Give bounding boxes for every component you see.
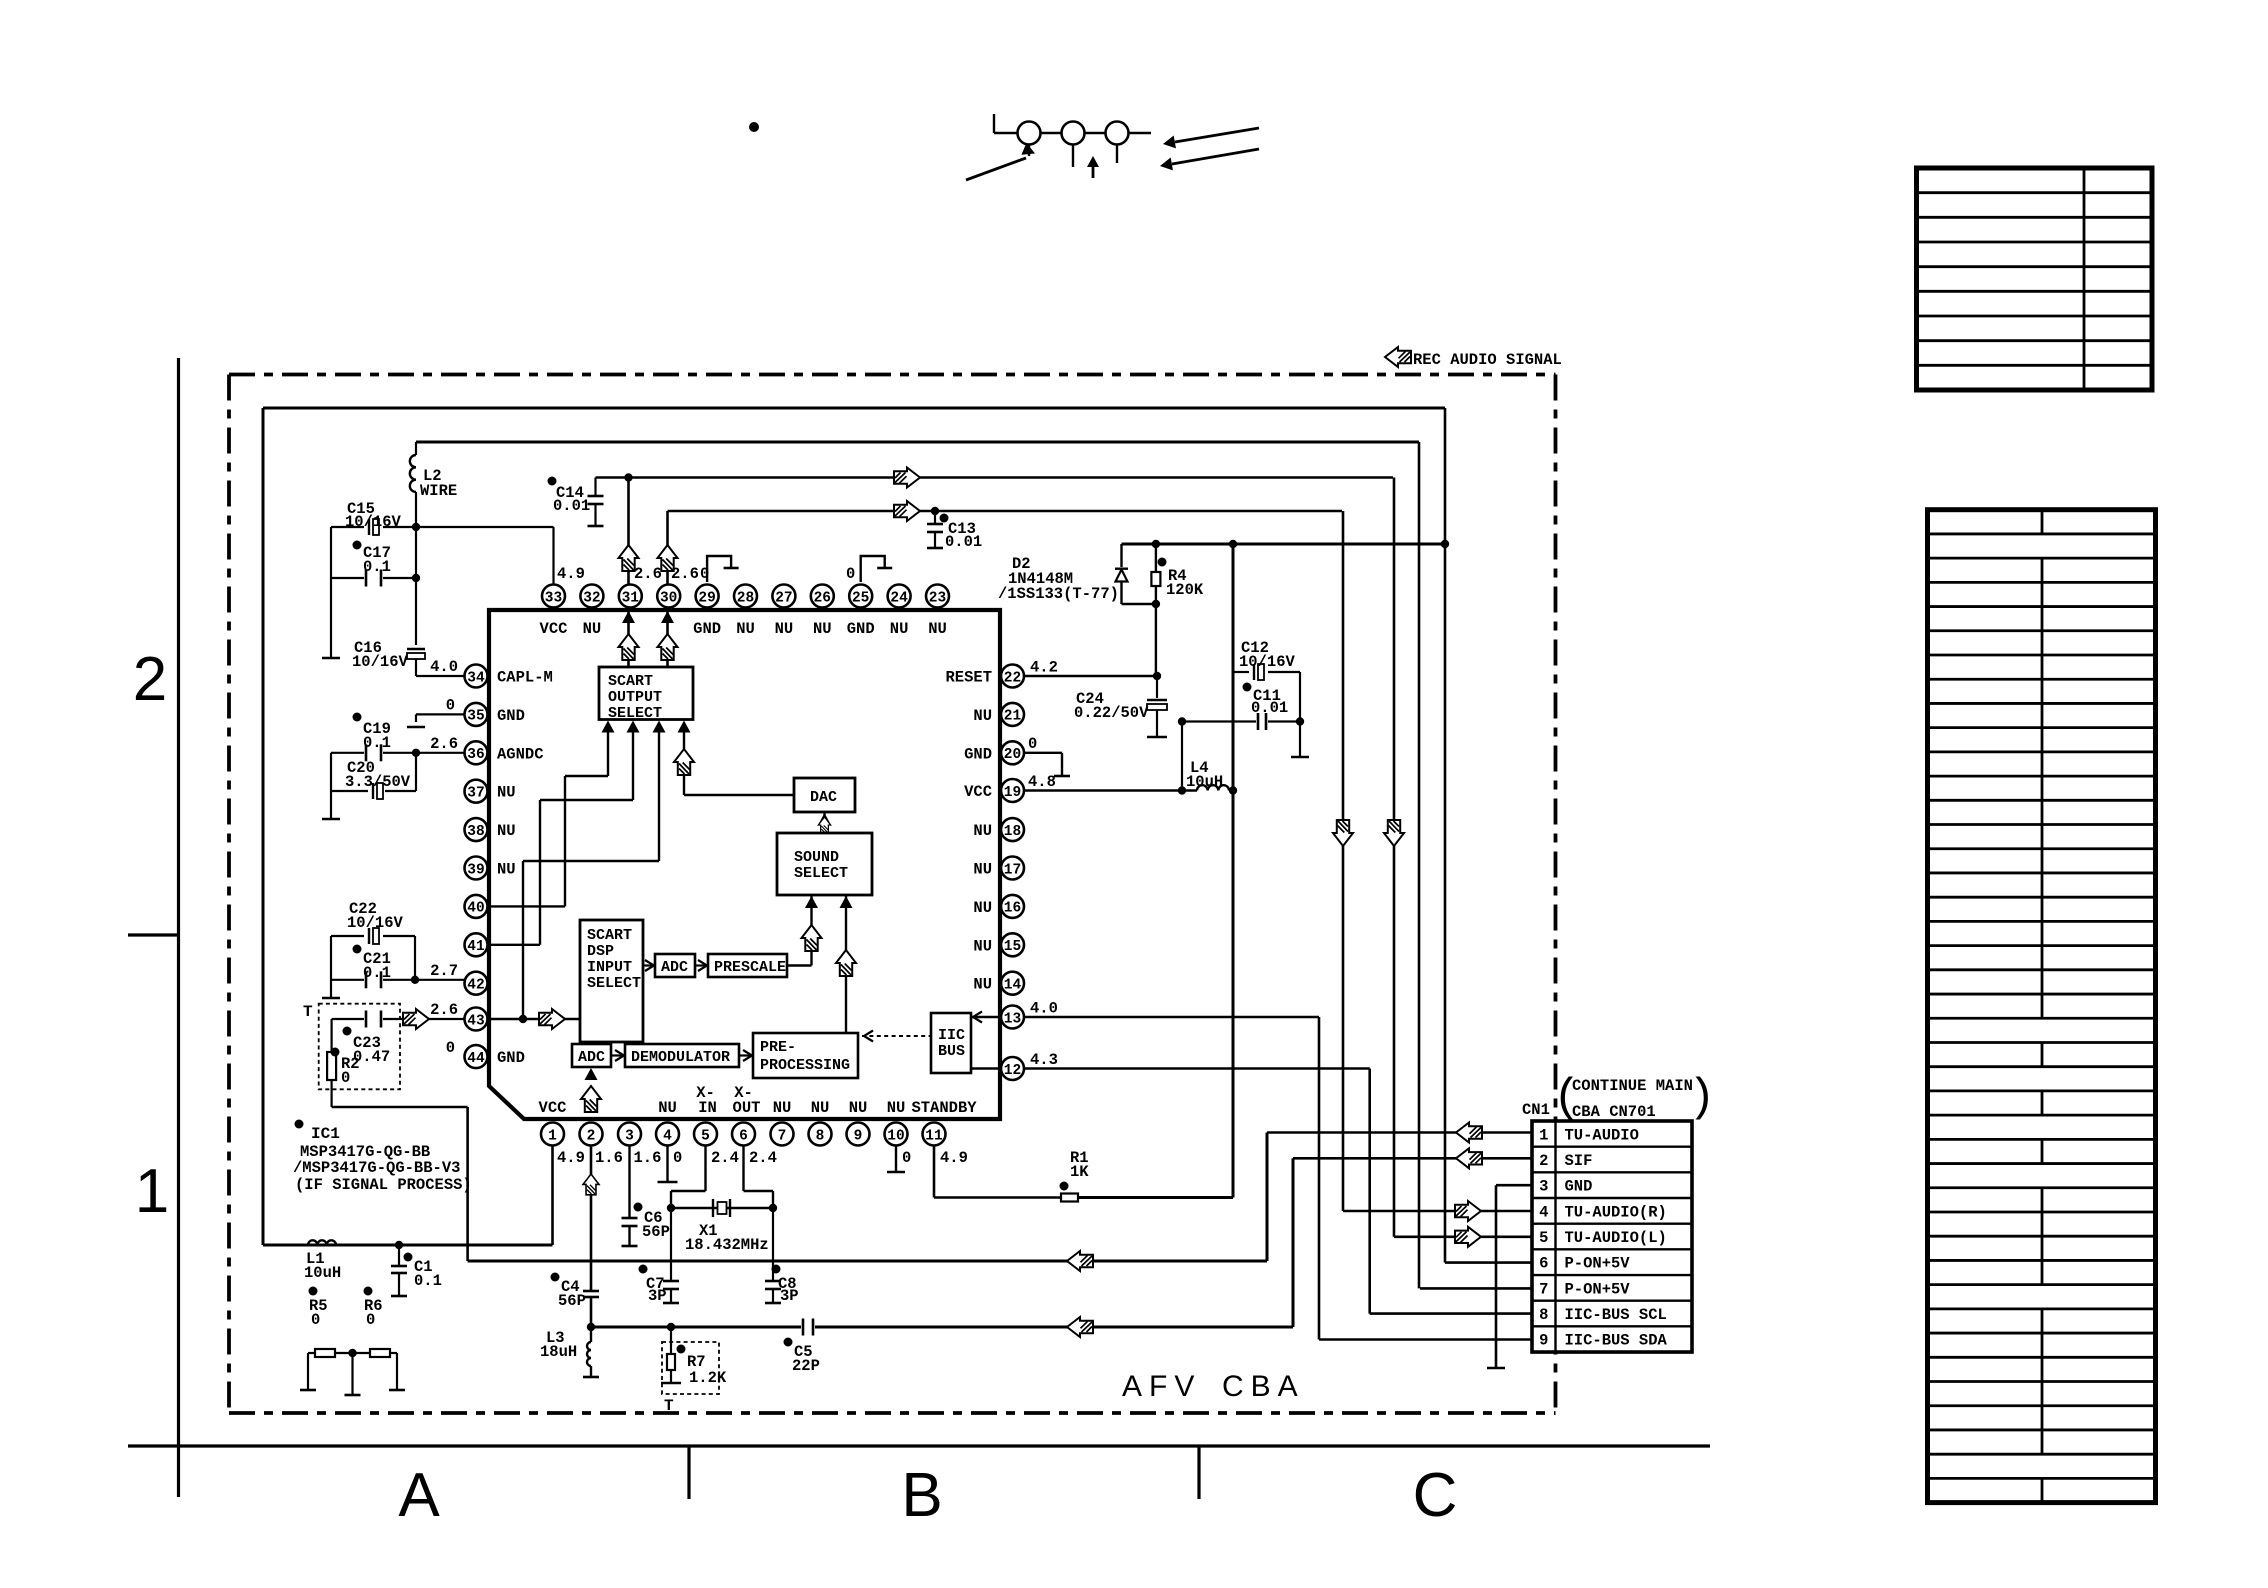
svg-text:10: 10	[887, 1128, 904, 1144]
svg-text:16: 16	[1004, 901, 1021, 917]
svg-text:2: 2	[1539, 1152, 1548, 1170]
svg-text:2.6: 2.6	[430, 1001, 458, 1019]
svg-text:SCART: SCART	[608, 673, 653, 690]
svg-text:42: 42	[467, 978, 484, 994]
svg-text:0: 0	[446, 697, 455, 715]
svg-text:0: 0	[673, 1149, 682, 1167]
svg-text:12: 12	[1004, 1063, 1021, 1079]
svg-text:NU: NU	[811, 1099, 830, 1117]
svg-text:BUS: BUS	[938, 1043, 965, 1060]
svg-text:3: 3	[625, 1128, 634, 1144]
svg-text:ADC: ADC	[661, 959, 688, 976]
svg-text:10/16V: 10/16V	[345, 513, 402, 531]
svg-text:32: 32	[583, 590, 600, 606]
svg-text:30: 30	[660, 590, 677, 606]
svg-text:20: 20	[1004, 747, 1021, 763]
svg-text:PRESCALE: PRESCALE	[714, 959, 786, 976]
svg-text:T: T	[303, 1003, 313, 1021]
svg-text:4: 4	[663, 1128, 672, 1144]
svg-text:35: 35	[467, 709, 484, 725]
svg-text:41: 41	[467, 939, 485, 955]
svg-text:3P: 3P	[648, 1287, 667, 1305]
svg-text:4.2: 4.2	[1030, 659, 1058, 677]
svg-text:38: 38	[467, 824, 484, 840]
svg-text:IC1: IC1	[311, 1125, 340, 1143]
svg-text:CAPL-M: CAPL-M	[497, 669, 553, 687]
svg-text:10/16V: 10/16V	[347, 914, 404, 932]
svg-text:NU: NU	[849, 1099, 868, 1117]
svg-text:NU: NU	[775, 620, 794, 638]
svg-text:44: 44	[467, 1051, 485, 1067]
svg-text:DSP: DSP	[587, 943, 614, 960]
svg-text:CBA: CBA	[1222, 1370, 1305, 1403]
svg-text:1.6: 1.6	[634, 1149, 662, 1167]
svg-text:18.432MHz: 18.432MHz	[685, 1236, 769, 1254]
svg-text:CBA CN701: CBA CN701	[1572, 1103, 1656, 1121]
svg-text:9: 9	[1539, 1332, 1548, 1350]
svg-text:NU: NU	[773, 1099, 792, 1117]
svg-text:26: 26	[814, 590, 831, 606]
svg-text:NU: NU	[887, 1099, 906, 1117]
svg-text:AGNDC: AGNDC	[497, 745, 544, 763]
svg-text:2: 2	[587, 1128, 596, 1144]
svg-text:(IF SIGNAL PROCESS): (IF SIGNAL PROCESS)	[295, 1176, 472, 1194]
svg-text:IIC: IIC	[938, 1027, 965, 1044]
svg-text:GND: GND	[497, 1049, 525, 1067]
svg-text:WIRE: WIRE	[420, 482, 457, 500]
svg-text:2.7: 2.7	[430, 962, 458, 980]
svg-text:NU: NU	[497, 822, 516, 840]
svg-text:3.3/50V: 3.3/50V	[345, 773, 411, 791]
svg-text:NU: NU	[736, 620, 755, 638]
svg-text:0.01: 0.01	[553, 497, 590, 515]
svg-text:10uH: 10uH	[1186, 773, 1223, 791]
svg-text:17: 17	[1004, 862, 1021, 878]
svg-text:6: 6	[1539, 1255, 1548, 1273]
svg-text:NU: NU	[973, 899, 992, 917]
svg-text:56P: 56P	[642, 1223, 670, 1241]
svg-text:14: 14	[1004, 978, 1022, 994]
svg-text:0: 0	[902, 1149, 911, 1167]
svg-text:PROCESSING: PROCESSING	[760, 1057, 850, 1074]
svg-text:NU: NU	[497, 861, 516, 879]
svg-text:0: 0	[366, 1311, 375, 1329]
svg-text:4.3: 4.3	[1030, 1051, 1058, 1069]
svg-text:ADC: ADC	[578, 1049, 605, 1066]
svg-text:10uH: 10uH	[304, 1264, 341, 1282]
svg-text:GND: GND	[964, 745, 992, 763]
svg-text:IIC-BUS SCL: IIC-BUS SCL	[1565, 1306, 1667, 1324]
svg-text:NU: NU	[890, 620, 909, 638]
svg-text:GND: GND	[497, 707, 525, 725]
svg-text:CONTINUE MAIN: CONTINUE MAIN	[1572, 1077, 1693, 1095]
svg-text:OUT: OUT	[733, 1099, 761, 1117]
svg-text:REC AUDIO SIGNAL: REC AUDIO SIGNAL	[1413, 351, 1562, 369]
svg-text:DEMODULATOR: DEMODULATOR	[631, 1049, 730, 1066]
svg-text:NU: NU	[973, 861, 992, 879]
svg-text:/MSP3417G-QG-BB-V3: /MSP3417G-QG-BB-V3	[293, 1159, 460, 1177]
svg-text:GND: GND	[693, 620, 721, 638]
svg-text:2.4: 2.4	[749, 1149, 777, 1167]
svg-text:4.9: 4.9	[940, 1149, 968, 1167]
svg-text:11: 11	[925, 1128, 943, 1144]
svg-text:13: 13	[1004, 1011, 1021, 1027]
svg-text:4.0: 4.0	[1030, 1000, 1058, 1018]
svg-text:6: 6	[739, 1128, 748, 1144]
svg-text:B: B	[901, 1461, 942, 1530]
svg-text:10/16V: 10/16V	[1239, 653, 1296, 671]
svg-text:5: 5	[701, 1128, 710, 1144]
svg-text:A: A	[398, 1461, 440, 1530]
svg-text:1.6: 1.6	[595, 1149, 623, 1167]
svg-text:NU: NU	[973, 937, 992, 955]
svg-text:IN: IN	[698, 1099, 717, 1117]
svg-text:33: 33	[545, 590, 562, 606]
svg-text:DAC: DAC	[810, 789, 837, 806]
svg-text:SCART: SCART	[587, 927, 632, 944]
svg-text:0: 0	[1028, 735, 1037, 753]
svg-text:22: 22	[1004, 670, 1021, 686]
svg-text:27: 27	[775, 590, 792, 606]
svg-text:IIC-BUS SDA: IIC-BUS SDA	[1565, 1332, 1668, 1350]
svg-text:8: 8	[1539, 1306, 1548, 1324]
svg-text:9: 9	[854, 1128, 863, 1144]
svg-text:AFV: AFV	[1122, 1370, 1201, 1403]
svg-text:0.01: 0.01	[1251, 699, 1288, 717]
svg-text:31: 31	[622, 590, 640, 606]
svg-text:2.4: 2.4	[711, 1149, 739, 1167]
svg-text:0: 0	[700, 565, 709, 583]
svg-text:56P: 56P	[558, 1292, 586, 1310]
svg-text:INPUT: INPUT	[587, 959, 632, 976]
svg-text:7: 7	[778, 1128, 787, 1144]
svg-text:43: 43	[467, 1013, 484, 1029]
svg-text:3P: 3P	[780, 1287, 799, 1305]
svg-text:18: 18	[1004, 824, 1021, 840]
svg-text:T: T	[664, 1397, 674, 1415]
svg-text:STANDBY: STANDBY	[911, 1099, 977, 1117]
svg-text:8: 8	[816, 1128, 825, 1144]
svg-text:RESET: RESET	[945, 669, 992, 687]
svg-text:VCC: VCC	[964, 783, 992, 801]
svg-text:4.8: 4.8	[1028, 773, 1056, 791]
svg-text:10/16V: 10/16V	[352, 653, 409, 671]
svg-text:NU: NU	[497, 784, 516, 802]
svg-text:TU-AUDIO: TU-AUDIO	[1565, 1126, 1639, 1144]
svg-text:22P: 22P	[792, 1357, 820, 1375]
svg-text:1: 1	[548, 1128, 557, 1144]
svg-text:NU: NU	[973, 822, 992, 840]
svg-text:4.9: 4.9	[557, 1149, 585, 1167]
svg-text:18uH: 18uH	[540, 1343, 577, 1361]
svg-text:NU: NU	[658, 1099, 677, 1117]
svg-text:SELECT: SELECT	[608, 705, 662, 722]
svg-text:23: 23	[929, 590, 946, 606]
svg-text:1.2K: 1.2K	[689, 1369, 727, 1387]
svg-text:7: 7	[1539, 1280, 1548, 1298]
svg-text:CN1: CN1	[1522, 1101, 1550, 1119]
svg-text:SIF: SIF	[1565, 1152, 1593, 1170]
svg-text:0.1: 0.1	[414, 1272, 442, 1290]
svg-text:0: 0	[846, 565, 855, 583]
svg-text:GND: GND	[847, 620, 875, 638]
svg-text:2.6: 2.6	[430, 735, 458, 753]
svg-text:28: 28	[737, 590, 754, 606]
svg-text:19: 19	[1004, 785, 1021, 801]
svg-text:NU: NU	[813, 620, 832, 638]
svg-text:P-ON+5V: P-ON+5V	[1565, 1255, 1631, 1273]
svg-text:2.6: 2.6	[634, 565, 662, 583]
svg-text:VCC: VCC	[539, 1099, 567, 1117]
svg-text:0.1: 0.1	[363, 734, 391, 752]
svg-text:NU: NU	[973, 707, 992, 725]
svg-text:120K: 120K	[1166, 581, 1204, 599]
svg-text:4.9: 4.9	[557, 565, 585, 583]
svg-text:0: 0	[341, 1069, 350, 1087]
svg-text:/1SS133(T-77): /1SS133(T-77)	[998, 585, 1119, 603]
svg-text:1: 1	[1539, 1126, 1548, 1144]
svg-text:3: 3	[1539, 1178, 1548, 1196]
svg-text:NU: NU	[583, 620, 602, 638]
svg-text:SOUND: SOUND	[794, 849, 839, 866]
svg-text:0.01: 0.01	[945, 533, 982, 551]
svg-text:21: 21	[1004, 709, 1022, 725]
svg-text:15: 15	[1004, 939, 1021, 955]
svg-text:4.0: 4.0	[430, 658, 458, 676]
svg-text:GND: GND	[1565, 1178, 1593, 1196]
svg-text:VCC: VCC	[540, 620, 568, 638]
svg-text:TU-AUDIO(L): TU-AUDIO(L)	[1565, 1229, 1667, 1247]
svg-text:TU-AUDIO(R): TU-AUDIO(R)	[1565, 1203, 1667, 1221]
svg-text:34: 34	[467, 670, 485, 686]
svg-text:25: 25	[852, 590, 869, 606]
svg-text:0: 0	[311, 1311, 320, 1329]
svg-text:NU: NU	[928, 620, 947, 638]
svg-text:0.1: 0.1	[363, 964, 391, 982]
svg-text:37: 37	[467, 786, 484, 802]
svg-text:36: 36	[467, 747, 484, 763]
svg-text:1: 1	[135, 1157, 169, 1226]
svg-text:NU: NU	[973, 976, 992, 994]
svg-text:0: 0	[446, 1039, 455, 1057]
svg-text:29: 29	[698, 590, 715, 606]
svg-text:0.1: 0.1	[363, 558, 391, 576]
svg-text:5: 5	[1539, 1229, 1548, 1247]
svg-text:OUTPUT: OUTPUT	[608, 689, 662, 706]
svg-text:1K: 1K	[1070, 1163, 1089, 1181]
svg-text:2.6: 2.6	[671, 565, 699, 583]
svg-text:4: 4	[1539, 1203, 1548, 1221]
svg-text:40: 40	[467, 901, 484, 917]
svg-text:PRE-: PRE-	[760, 1039, 796, 1056]
svg-text:SELECT: SELECT	[587, 975, 641, 992]
svg-text:39: 39	[467, 862, 484, 878]
svg-text:P-ON+5V: P-ON+5V	[1565, 1280, 1631, 1298]
svg-text:SELECT: SELECT	[794, 865, 848, 882]
svg-text:2: 2	[133, 645, 167, 714]
svg-text:0.22/50V: 0.22/50V	[1074, 704, 1149, 722]
svg-text:C: C	[1413, 1461, 1458, 1530]
svg-text:24: 24	[890, 590, 908, 606]
